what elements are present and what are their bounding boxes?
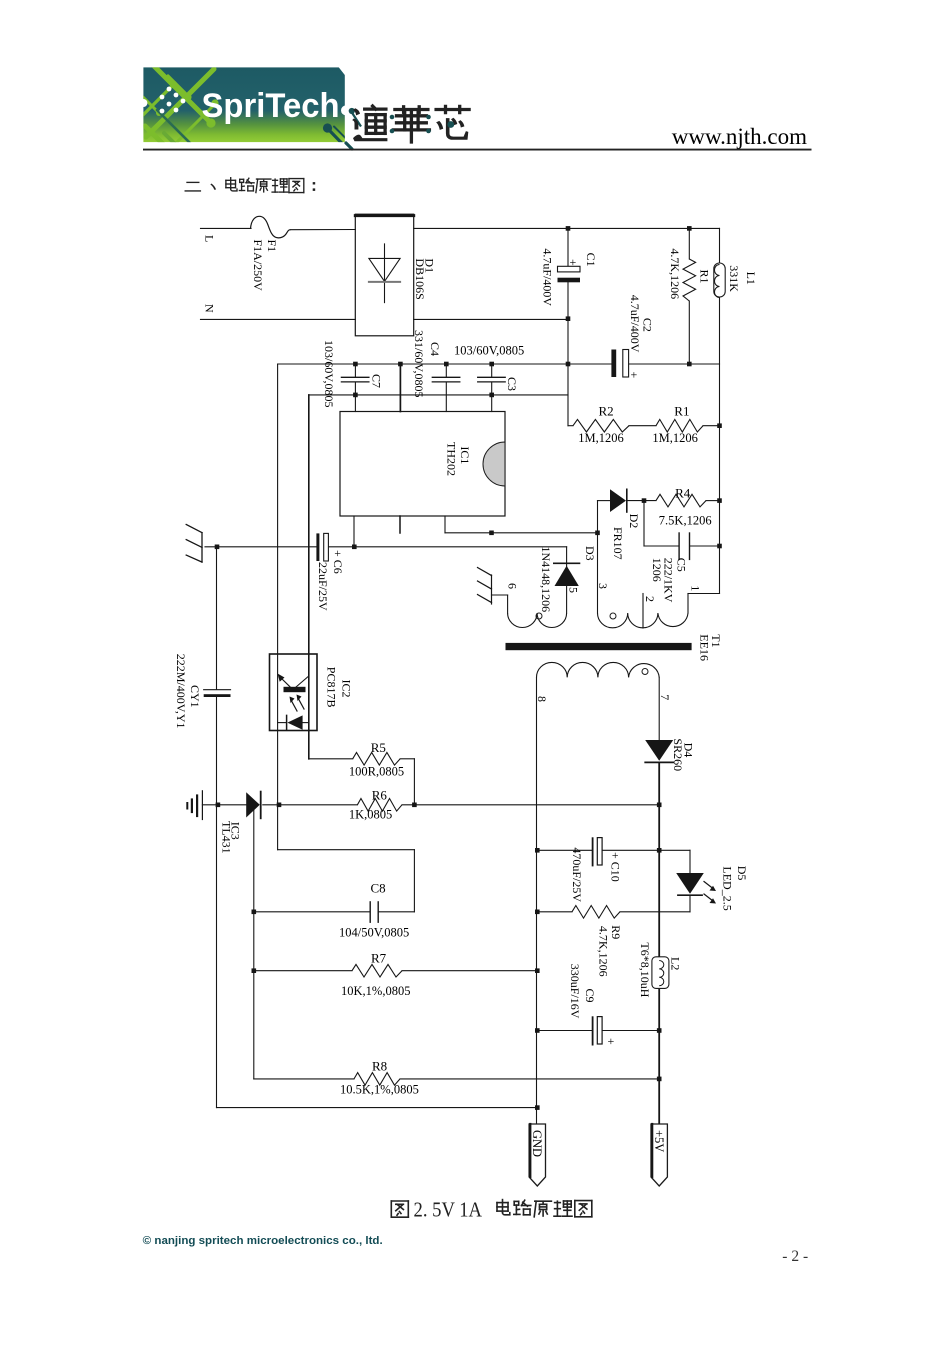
svg-text:PC817B: PC817B xyxy=(325,667,339,708)
svg-text:1M,1206: 1M,1206 xyxy=(578,431,624,445)
svg-text:IC1: IC1 xyxy=(458,446,472,464)
svg-text:D5: D5 xyxy=(735,866,749,881)
svg-text:103/60V,0805: 103/60V,0805 xyxy=(454,344,524,358)
svg-text:N: N xyxy=(202,304,216,313)
svg-text:2: 2 xyxy=(643,596,657,602)
svg-text:104/50V,0805: 104/50V,0805 xyxy=(339,926,409,940)
svg-text:1206: 1206 xyxy=(650,558,664,582)
svg-text:- 2 -: - 2 - xyxy=(782,1248,808,1265)
svg-text:R4: R4 xyxy=(675,486,691,501)
svg-text:+: + xyxy=(608,1034,615,1048)
svg-text:GND: GND xyxy=(530,1130,544,1157)
svg-text:D2: D2 xyxy=(627,514,641,529)
svg-text:IC2: IC2 xyxy=(340,680,354,698)
svg-text:L2: L2 xyxy=(669,957,683,970)
svg-text:7.5K,1206: 7.5K,1206 xyxy=(659,514,712,528)
svg-text:4.7K,1206: 4.7K,1206 xyxy=(597,926,611,977)
svg-text:R5: R5 xyxy=(371,740,386,755)
svg-text:C8: C8 xyxy=(371,881,386,896)
svg-text:1: 1 xyxy=(688,585,702,591)
svg-text:L: L xyxy=(202,235,216,242)
svg-text:© nanjing spritech microelectr: © nanjing spritech microelectronics co.,… xyxy=(143,1235,383,1247)
svg-text:470uF/25V: 470uF/25V xyxy=(570,847,584,902)
svg-text:+5V: +5V xyxy=(652,1130,666,1152)
svg-text:2. 5V 1A: 2. 5V 1A xyxy=(414,1198,483,1222)
svg-text:CY1: CY1 xyxy=(188,685,202,708)
svg-text:4.7uF/400V: 4.7uF/400V xyxy=(628,295,642,353)
svg-text:SpriTech: SpriTech xyxy=(202,87,340,125)
svg-text:331/60V,0805: 331/60V,0805 xyxy=(412,330,426,397)
svg-text:5: 5 xyxy=(567,587,581,593)
svg-text:R6: R6 xyxy=(372,788,388,803)
svg-text:10K,1%,0805: 10K,1%,0805 xyxy=(341,984,410,998)
svg-text:C5: C5 xyxy=(675,558,689,572)
svg-text:+ C6: + C6 xyxy=(331,550,345,574)
svg-text:8: 8 xyxy=(535,696,549,702)
svg-text:R1: R1 xyxy=(674,404,689,419)
svg-text:TH202: TH202 xyxy=(445,442,459,476)
svg-text:4.7uF/400V: 4.7uF/400V xyxy=(541,248,555,306)
svg-text:EE16: EE16 xyxy=(698,634,712,661)
svg-text:R8: R8 xyxy=(372,1059,387,1074)
svg-text:C1: C1 xyxy=(584,253,598,267)
svg-text:7: 7 xyxy=(658,694,672,700)
svg-text:C7: C7 xyxy=(370,374,384,388)
svg-text:LED_2.5: LED_2.5 xyxy=(721,866,735,910)
svg-text:C4: C4 xyxy=(428,342,442,356)
svg-text:100R,0805: 100R,0805 xyxy=(349,765,404,779)
svg-text:330uF/16V: 330uF/16V xyxy=(568,964,582,1019)
svg-text:3: 3 xyxy=(596,583,610,589)
svg-text:1N4148,1206: 1N4148,1206 xyxy=(539,547,553,613)
svg-text:F1A/250V: F1A/250V xyxy=(251,240,265,292)
svg-text:1K,0805: 1K,0805 xyxy=(349,808,392,822)
svg-text:R1: R1 xyxy=(698,270,712,284)
svg-text:1M,1206: 1M,1206 xyxy=(652,431,698,445)
svg-text:R2: R2 xyxy=(599,404,614,419)
svg-text:F1: F1 xyxy=(265,240,279,253)
svg-text:FR107: FR107 xyxy=(611,527,625,560)
svg-text:10.5K,1%,0805: 10.5K,1%,0805 xyxy=(340,1083,419,1097)
svg-text:6: 6 xyxy=(506,583,520,589)
svg-text:22uF/25V: 22uF/25V xyxy=(316,562,330,611)
svg-text:C9: C9 xyxy=(583,989,597,1003)
svg-text:+: + xyxy=(570,255,577,269)
svg-text:R7: R7 xyxy=(371,951,387,966)
svg-text:D3: D3 xyxy=(583,546,597,561)
svg-text:TL431: TL431 xyxy=(219,821,233,854)
svg-text:222M/400V,Y1: 222M/400V,Y1 xyxy=(174,654,188,729)
svg-text:+: + xyxy=(631,368,638,382)
svg-text:4.7K,1206: 4.7K,1206 xyxy=(668,248,682,299)
svg-text:www.njth.com: www.njth.com xyxy=(672,124,807,149)
svg-text:+ C10: + C10 xyxy=(609,852,623,882)
svg-text:L1: L1 xyxy=(744,272,758,285)
svg-text:103/60V,0805: 103/60V,0805 xyxy=(322,340,336,407)
svg-text:T6*8,10uH: T6*8,10uH xyxy=(638,942,652,997)
svg-text:SR260: SR260 xyxy=(671,738,685,771)
svg-text:DB106S: DB106S xyxy=(413,258,427,299)
svg-text:C3: C3 xyxy=(505,377,519,391)
svg-text:331K: 331K xyxy=(727,265,741,292)
